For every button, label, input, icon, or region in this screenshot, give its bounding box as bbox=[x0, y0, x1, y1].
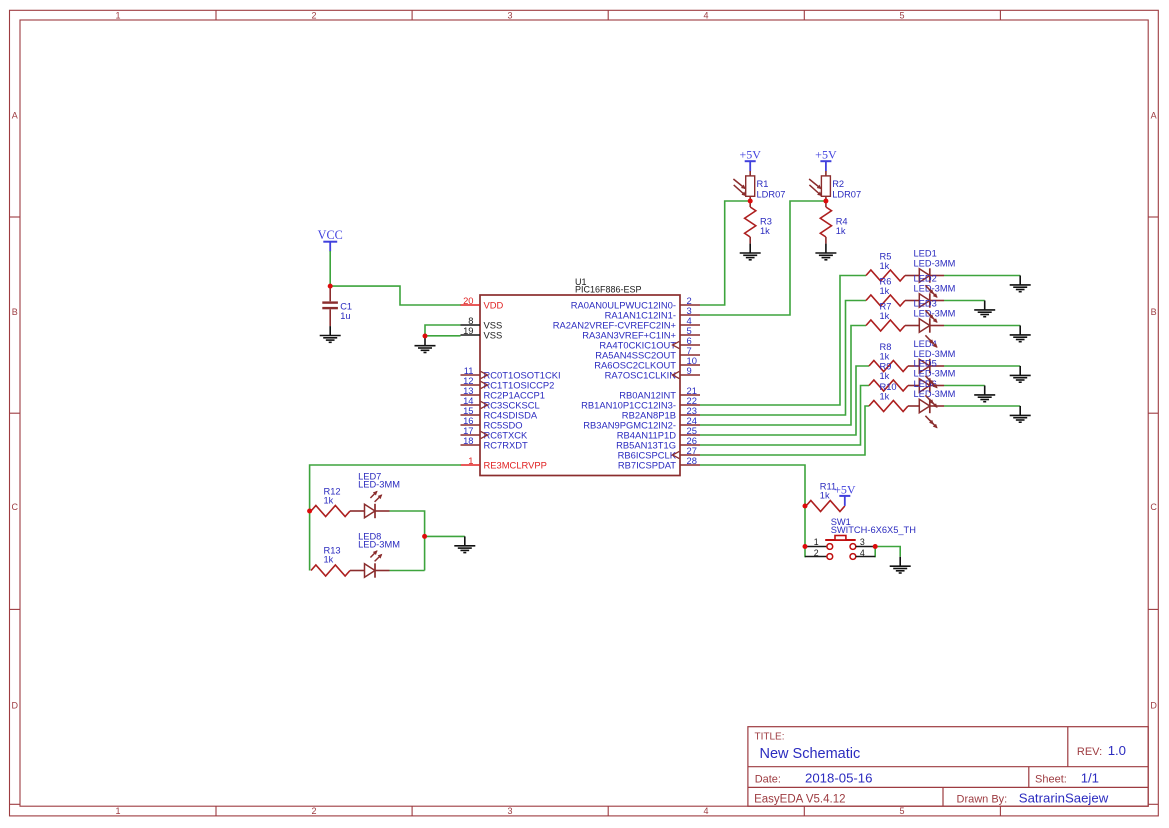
svg-text:19: 19 bbox=[463, 325, 473, 336]
node VCC junction bbox=[328, 284, 333, 289]
led LED4 LED-3MM body bbox=[919, 359, 930, 373]
svg-text:2018-05-16: 2018-05-16 bbox=[805, 770, 872, 785]
svg-text:+5V: +5V bbox=[815, 148, 837, 162]
wire VCC junction to pin 20 VDD bbox=[330, 286, 461, 305]
svg-text:R3: R3 bbox=[760, 217, 772, 227]
svg-text:D: D bbox=[11, 701, 18, 711]
svg-text:18: 18 bbox=[463, 435, 473, 446]
pin 13 RC2P1ACCP1 bbox=[461, 385, 545, 401]
resistor R4 bbox=[820, 201, 831, 244]
pin 28 RB7ICSPDAT bbox=[618, 455, 700, 471]
svg-text:4: 4 bbox=[703, 10, 708, 20]
wire pin 26 to R9 bbox=[700, 386, 869, 446]
svg-text:1k: 1k bbox=[880, 311, 890, 321]
ic U1 PIC16F886-ESP body bbox=[480, 295, 680, 476]
svg-text:Sheet:: Sheet: bbox=[1035, 773, 1067, 785]
led LED6 LED-3MM body bbox=[919, 399, 930, 413]
wire pin 3 to R2 junction bbox=[700, 201, 826, 315]
label LED8 bbox=[358, 531, 400, 549]
wire +5V to R2 bbox=[825, 171, 827, 176]
wire pin 28 to SW1 bbox=[700, 465, 805, 547]
wire junction to ground bbox=[425, 535, 465, 537]
node VSS junction bbox=[423, 334, 428, 339]
node SW1 pin1 junction bbox=[803, 544, 808, 549]
svg-text:RE3MCLRVPP: RE3MCLRVPP bbox=[484, 460, 547, 471]
svg-text:LED2: LED2 bbox=[914, 273, 937, 283]
pin 5 RA3AN3VREF+C1IN+ bbox=[582, 325, 700, 341]
svg-text:EasyEDA V5.4.12: EasyEDA V5.4.12 bbox=[754, 793, 845, 805]
svg-text:4: 4 bbox=[703, 806, 708, 816]
wire LED3 cathode lead bbox=[930, 325, 944, 327]
label U1 designator bbox=[575, 277, 642, 295]
ground for LED7/LED8 bbox=[454, 536, 475, 552]
capacitor C1 bbox=[322, 286, 338, 326]
label LED1 bbox=[914, 248, 956, 268]
wire LED5 to ground bbox=[944, 385, 985, 387]
pin 21 RB0AN12INT bbox=[619, 385, 700, 401]
svg-text:1k: 1k bbox=[880, 286, 890, 296]
svg-text:R5: R5 bbox=[880, 251, 892, 261]
svg-text:PIC16F886-ESP: PIC16F886-ESP bbox=[575, 285, 642, 295]
pin 26 RB5AN13T1G bbox=[616, 435, 700, 451]
led LED4 emission arrows bbox=[925, 376, 937, 388]
svg-text:A: A bbox=[12, 111, 18, 121]
title block grid bbox=[748, 727, 1148, 807]
svg-text:R7: R7 bbox=[880, 301, 892, 311]
pin 27 RB6ICSPCLK bbox=[618, 445, 700, 461]
pin 9 RA7OSC1CLKIN bbox=[605, 365, 700, 381]
svg-text:R10: R10 bbox=[880, 382, 897, 392]
svg-text:New Schematic: New Schematic bbox=[760, 746, 861, 762]
wire LED1 to ground bbox=[944, 275, 1020, 277]
ground for LED3 bbox=[1010, 326, 1031, 342]
svg-text:A: A bbox=[1151, 111, 1157, 121]
led LED7 emission arrows bbox=[370, 491, 381, 502]
wire pin 23 to R6 bbox=[700, 301, 866, 416]
svg-text:Drawn By:: Drawn By: bbox=[957, 793, 1008, 805]
svg-text:SatrarinSaejew: SatrarinSaejew bbox=[1019, 790, 1109, 805]
svg-text:2: 2 bbox=[311, 806, 316, 816]
pin 16 RC5SDO bbox=[461, 415, 523, 431]
svg-text:R1: R1 bbox=[757, 179, 769, 189]
svg-text:1: 1 bbox=[115, 806, 120, 816]
wire LED5 cathode lead bbox=[930, 385, 944, 387]
wire pin 22 to R5 bbox=[700, 276, 866, 406]
svg-text:1k: 1k bbox=[880, 261, 890, 271]
label R3 bbox=[760, 217, 772, 237]
svg-text:VDD: VDD bbox=[484, 300, 504, 311]
svg-text:RA7OSC1CLKIN: RA7OSC1CLKIN bbox=[605, 370, 676, 381]
svg-text:LDR07: LDR07 bbox=[832, 189, 861, 199]
led LED3 emission arrows bbox=[925, 335, 937, 347]
ground below SW1 bbox=[890, 557, 911, 573]
pin 7 RA5AN4SSC2OUT bbox=[595, 345, 700, 361]
resistor R8 bbox=[869, 361, 919, 372]
svg-text:+5V: +5V bbox=[834, 482, 856, 496]
power flag VCC bbox=[318, 228, 343, 252]
pin 18 RC7RXDT bbox=[461, 435, 529, 451]
svg-text:LED-3MM: LED-3MM bbox=[914, 349, 956, 359]
svg-text:VSS: VSS bbox=[484, 330, 503, 341]
svg-text:LED-3MM: LED-3MM bbox=[914, 389, 956, 399]
wire pin 19 VSS to ground bbox=[425, 335, 461, 337]
pin numbers SW1 bbox=[814, 537, 865, 558]
pin 19 VSS bbox=[461, 325, 503, 341]
wire LED3 to ground bbox=[944, 325, 1020, 327]
label R8 bbox=[880, 342, 892, 362]
label LED5 bbox=[914, 358, 956, 378]
led LED5 emission arrows bbox=[925, 395, 937, 407]
wire pin 8 VSS to ground bbox=[425, 325, 461, 336]
pin 2 RA0AN0ULPWUC12IN0- bbox=[571, 295, 700, 311]
pin 12 RC1T1OSICCP2 bbox=[461, 375, 555, 391]
resistor R7 bbox=[866, 320, 919, 331]
wire LED6 cathode lead bbox=[930, 405, 944, 407]
node R2-R4 junction bbox=[823, 199, 828, 204]
svg-text:4: 4 bbox=[860, 548, 865, 558]
svg-text:LED-3MM: LED-3MM bbox=[914, 368, 956, 378]
led LED8 LED-3MM body bbox=[365, 563, 376, 577]
svg-text:5: 5 bbox=[899, 806, 904, 816]
svg-text:RB7ICSPDAT: RB7ICSPDAT bbox=[618, 460, 676, 471]
label R12 bbox=[324, 486, 341, 505]
svg-text:1: 1 bbox=[115, 10, 120, 20]
led LED8 emission arrows bbox=[370, 551, 381, 562]
wire LED4 cathode lead bbox=[930, 365, 944, 367]
ground for LED1 bbox=[1010, 276, 1031, 292]
ground for LED4 bbox=[1010, 366, 1031, 382]
svg-text:LED-3MM: LED-3MM bbox=[914, 308, 956, 318]
svg-text:1k: 1k bbox=[880, 391, 890, 401]
label SW1 bbox=[831, 517, 916, 535]
pin 1 RE3MCLRVPP bbox=[461, 455, 547, 471]
svg-text:3: 3 bbox=[507, 806, 512, 816]
led LED5 LED-3MM body bbox=[919, 378, 930, 392]
svg-text:2: 2 bbox=[814, 548, 819, 558]
svg-text:D: D bbox=[1150, 701, 1157, 711]
pin 4 RA2AN2VREF-CVREFC2IN+ bbox=[553, 315, 700, 331]
ground below C1 bbox=[320, 326, 341, 342]
ground below R3 bbox=[740, 244, 761, 260]
pin 17 RC6TXCK bbox=[461, 425, 529, 441]
node SW1 pin3 junction bbox=[873, 544, 878, 549]
led LED1 LED-3MM body bbox=[919, 268, 930, 282]
led LED2 emission arrows bbox=[925, 310, 937, 322]
svg-text:5: 5 bbox=[899, 10, 904, 20]
led LED6 emission arrows bbox=[925, 416, 937, 428]
label R7 bbox=[880, 301, 892, 321]
led LED2 LED-3MM body bbox=[919, 293, 930, 307]
svg-text:R8: R8 bbox=[880, 342, 892, 352]
wire LED8 cathode lead bbox=[375, 570, 390, 572]
pin 10 RA6OSC2CLKOUT bbox=[594, 355, 700, 371]
pin 22 RB1AN10P1CC12IN3- bbox=[581, 395, 700, 411]
svg-text:1k: 1k bbox=[760, 226, 770, 236]
pin 14 RC3SCKSCL bbox=[461, 395, 540, 411]
ground below VSS bbox=[415, 336, 436, 352]
ground for LED6 bbox=[1010, 406, 1031, 422]
node R12 junction bbox=[307, 509, 312, 514]
svg-text:R4: R4 bbox=[836, 217, 848, 227]
svg-text:1k: 1k bbox=[836, 226, 846, 236]
ground for LED2 bbox=[974, 301, 995, 317]
label R2 bbox=[832, 179, 861, 199]
resistor R11 bbox=[806, 501, 845, 512]
wire LED4 to ground bbox=[944, 365, 1020, 367]
resistor R5 bbox=[866, 270, 919, 281]
label LED7 bbox=[358, 471, 400, 489]
svg-text:20: 20 bbox=[463, 295, 473, 306]
wire pin 25 to R8 bbox=[700, 366, 869, 435]
wire LED7 cathode lead bbox=[375, 510, 390, 512]
svg-text:SWITCH-6X6X5_TH: SWITCH-6X6X5_TH bbox=[831, 525, 916, 535]
label R1 bbox=[757, 179, 786, 199]
label R9 bbox=[880, 361, 892, 381]
wire LED7 to ground junction bbox=[390, 511, 425, 571]
resistor R3 bbox=[745, 201, 756, 244]
wire pin 24 to R7 bbox=[700, 326, 866, 426]
wire LED2 to ground bbox=[944, 300, 985, 302]
wire pin 27 to R10 bbox=[700, 406, 869, 455]
svg-text:3: 3 bbox=[507, 10, 512, 20]
wire LED8 to ground junction bbox=[390, 570, 425, 572]
svg-text:1: 1 bbox=[468, 455, 473, 466]
pin 24 RB3AN9PGMC12IN2- bbox=[583, 415, 700, 431]
svg-text:28: 28 bbox=[687, 455, 697, 466]
pin 20 VDD bbox=[461, 295, 504, 311]
label LED6 bbox=[914, 379, 956, 399]
svg-text:C: C bbox=[1150, 502, 1157, 512]
svg-text:1u: 1u bbox=[340, 311, 350, 321]
svg-text:LED5: LED5 bbox=[914, 358, 937, 368]
pin 15 RC4SDISDA bbox=[461, 405, 538, 421]
svg-text:3: 3 bbox=[860, 537, 865, 547]
svg-text:LED-3MM: LED-3MM bbox=[914, 283, 956, 293]
svg-text:R6: R6 bbox=[880, 276, 892, 286]
svg-text:RC7RXDT: RC7RXDT bbox=[484, 440, 529, 451]
photoresistor R2 LDR07 bbox=[809, 176, 830, 201]
led LED3 LED-3MM body bbox=[919, 318, 930, 332]
pin 6 RA4T0CKIC1OUT bbox=[599, 335, 700, 351]
label LED4 bbox=[914, 339, 956, 359]
node LED7/LED8 ground junction bbox=[422, 534, 427, 539]
led LED7 LED-3MM body bbox=[365, 504, 376, 518]
label R4 bbox=[836, 217, 848, 237]
label LED3 bbox=[914, 298, 956, 318]
label R5 bbox=[880, 251, 892, 271]
label LED2 bbox=[914, 273, 956, 293]
svg-text:1k: 1k bbox=[880, 351, 890, 361]
svg-text:R2: R2 bbox=[832, 179, 844, 189]
svg-text:LED-3MM: LED-3MM bbox=[358, 540, 400, 550]
node R1-R3 junction bbox=[748, 199, 753, 204]
svg-text:LED-3MM: LED-3MM bbox=[914, 258, 956, 268]
svg-text:9: 9 bbox=[687, 365, 692, 376]
wire pin 2 to R1 junction bbox=[700, 201, 750, 305]
resistor R9 bbox=[869, 380, 919, 391]
power flag +5V (R1) bbox=[739, 148, 761, 172]
svg-text:1k: 1k bbox=[880, 371, 890, 381]
svg-text:1k: 1k bbox=[324, 495, 334, 505]
resistor R10 bbox=[869, 401, 919, 412]
svg-text:LED-3MM: LED-3MM bbox=[358, 480, 400, 490]
svg-text:REV:: REV: bbox=[1077, 746, 1102, 758]
svg-text:B: B bbox=[12, 307, 18, 317]
wire LED6 to ground bbox=[944, 405, 1020, 407]
svg-text:LDR07: LDR07 bbox=[757, 189, 786, 199]
power flag +5V (R11) bbox=[834, 482, 856, 506]
resistor R13 bbox=[311, 565, 365, 576]
wire VCC to C1 junction bbox=[329, 251, 331, 286]
svg-text:1k: 1k bbox=[324, 554, 334, 564]
pin 11 RC0T1OSOT1CKI bbox=[461, 365, 561, 381]
svg-text:R9: R9 bbox=[880, 361, 892, 371]
wire LED1 cathode lead bbox=[930, 275, 944, 277]
svg-text:C: C bbox=[11, 502, 18, 512]
resistor R6 bbox=[866, 295, 919, 306]
svg-text:1k: 1k bbox=[820, 491, 830, 501]
svg-text:TITLE:: TITLE: bbox=[755, 732, 785, 743]
wire pin 1 to R12/R13 bbox=[310, 465, 461, 571]
photoresistor R1 LDR07 bbox=[733, 176, 754, 201]
ground below R4 bbox=[815, 244, 836, 260]
pushbutton SW1 SWITCH-6X6X5_TH bbox=[805, 536, 875, 560]
svg-text:+5V: +5V bbox=[739, 148, 761, 162]
svg-text:VCC: VCC bbox=[318, 228, 343, 242]
wire LED2 cathode lead bbox=[930, 300, 944, 302]
svg-text:Date:: Date: bbox=[755, 773, 781, 785]
pin 23 RB2AN8P1B bbox=[622, 405, 700, 421]
svg-text:B: B bbox=[1151, 307, 1157, 317]
svg-text:1: 1 bbox=[814, 537, 819, 547]
svg-text:1/1: 1/1 bbox=[1081, 770, 1099, 785]
node R11 junction bbox=[803, 504, 808, 509]
label C1 value bbox=[340, 301, 352, 320]
wire SW1 to ground bbox=[875, 547, 900, 557]
svg-text:2: 2 bbox=[311, 10, 316, 20]
power flag +5V (R2) bbox=[815, 148, 837, 172]
svg-text:LED3: LED3 bbox=[914, 298, 937, 308]
svg-text:1.0: 1.0 bbox=[1108, 743, 1126, 758]
ground for LED5 bbox=[974, 386, 995, 402]
wire +5V to R1 bbox=[749, 171, 751, 176]
pin 25 RB4AN11P1D bbox=[617, 425, 700, 441]
pin 3 RA1AN1C12IN1- bbox=[605, 305, 700, 321]
pin 8 VSS bbox=[461, 315, 503, 331]
label R6 bbox=[880, 276, 892, 296]
svg-text:LED1: LED1 bbox=[914, 248, 937, 258]
label R10 bbox=[880, 382, 897, 402]
label R13 bbox=[324, 545, 341, 564]
resistor R12 bbox=[311, 506, 365, 517]
led LED1 emission arrows bbox=[925, 285, 937, 297]
label R11 bbox=[820, 482, 836, 501]
